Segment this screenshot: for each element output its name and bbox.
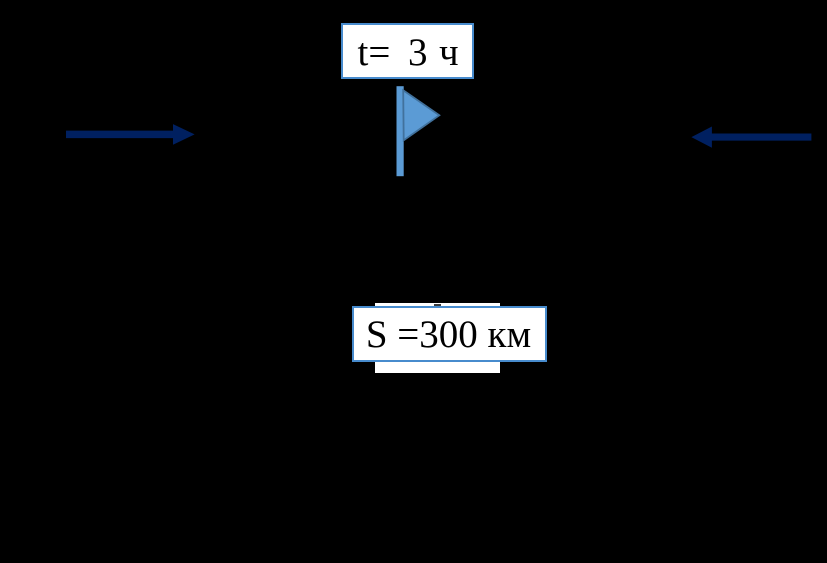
flag triangle <box>403 90 439 140</box>
right arrow (pointing left) <box>685 118 817 154</box>
label box S = 300 км <box>352 306 547 362</box>
flag (meeting point marker) <box>390 80 445 180</box>
label box t = 3 ч <box>341 23 474 79</box>
left arrow (pointing right) <box>60 118 200 151</box>
white strip behind S label <box>375 303 500 373</box>
t-box text <box>358 33 391 72</box>
flag pole <box>397 86 404 176</box>
small dark notch on strip top edge <box>434 304 441 307</box>
